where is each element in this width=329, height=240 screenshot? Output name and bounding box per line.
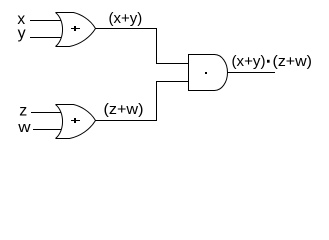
svg-text:y: y bbox=[18, 25, 26, 42]
svg-text:(z+w): (z+w) bbox=[273, 53, 313, 70]
svg-text:w: w bbox=[17, 119, 31, 136]
svg-text:(z+w): (z+w) bbox=[104, 101, 144, 118]
svg-text:(x+y): (x+y) bbox=[109, 10, 143, 27]
svg-text:z: z bbox=[19, 103, 27, 120]
svg-text:(x+y): (x+y) bbox=[232, 53, 266, 70]
